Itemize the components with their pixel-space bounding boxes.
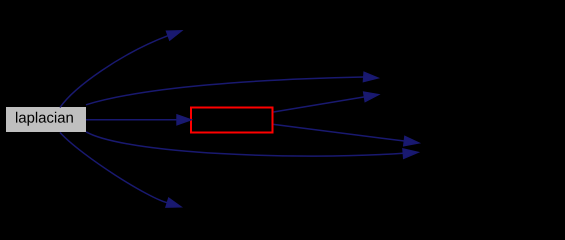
- edge laplacian to red box (horizontal): [86, 115, 192, 125]
- edge laplacian to upper-right node (arc over red box): [86, 72, 379, 105]
- edge laplacian to lower-right node (long swoop under red box): [86, 132, 419, 159]
- label "laplacian": [16, 112, 73, 126]
- node laplacian (root caller, grey filled box): [6, 107, 86, 132]
- edge laplacian to top node: [60, 31, 182, 108]
- edge red box to mid-right node: [274, 92, 380, 112]
- edge laplacian to bottom node: [60, 133, 182, 208]
- node current-function (red bordered box): [191, 108, 273, 133]
- edge red box to lower-right node: [274, 124, 420, 146]
